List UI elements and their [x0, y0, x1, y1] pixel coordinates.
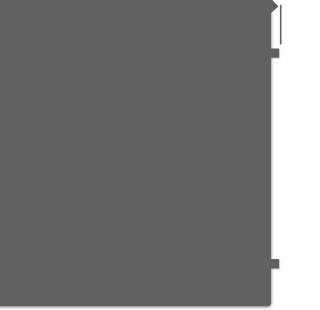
right tab lower [271, 259, 280, 268]
right tab upper [271, 49, 280, 58]
vertical line [280, 5, 282, 45]
tooltip arrow [271, 0, 279, 14]
